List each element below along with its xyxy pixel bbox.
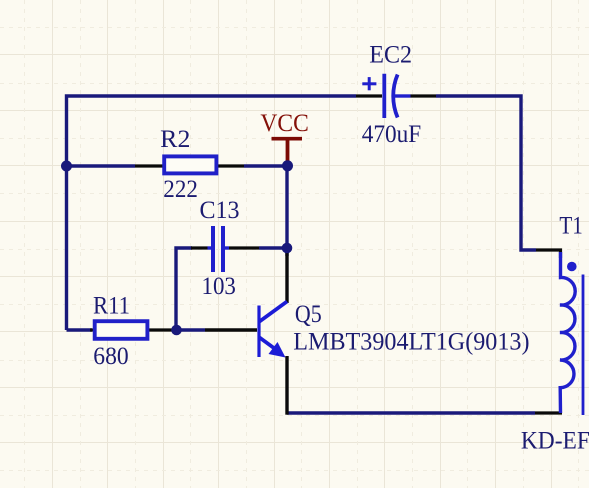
wire: R11 row right to base node	[172, 328, 205, 331]
junction node R11 / base row	[171, 325, 182, 336]
svg-text:R2: R2	[160, 124, 190, 153]
resistor R2 body	[164, 156, 216, 173]
transformer T1 core line	[582, 275, 585, 416]
pin: T1 top pin elbow (black)	[536, 250, 561, 258]
svg-text:VCC: VCC	[260, 108, 308, 137]
transformer T1 winding	[560, 252, 575, 413]
svg-text:KD-EF: KD-EF	[521, 426, 589, 455]
capacitor C13 plates	[213, 226, 223, 272]
pin: C13 left pin	[191, 246, 208, 249]
svg-text:222: 222	[163, 174, 198, 203]
svg-text:C13: C13	[200, 195, 240, 224]
junction node at left R2 row	[61, 161, 72, 172]
wire: top right + right vertical down to T1	[436, 96, 536, 250]
capacitor C13 lead stubs	[208, 246, 214, 249]
transistor Q5 symbol	[259, 302, 287, 358]
svg-text:T1: T1	[559, 211, 582, 240]
wire: left vertical + top horizontal run	[67, 96, 357, 330]
transistor Q5 emitter arrow	[269, 342, 286, 358]
wire: C13 left loop down to base row	[176, 248, 192, 330]
wire: R11 row left	[67, 328, 93, 331]
wire: bottom emitter run	[287, 411, 535, 414]
junction node VCC / R2 right	[282, 160, 293, 171]
pin: T1 bottom pin (black)	[535, 411, 562, 414]
wire: R2 row left segment	[67, 164, 136, 167]
svg-text:EC2: EC2	[369, 39, 412, 68]
pin: Q5 collector pin	[285, 253, 288, 303]
transformer T1 polarity dot	[567, 262, 577, 272]
svg-text:470uF: 470uF	[362, 119, 422, 148]
wire: C13 right to node	[259, 246, 287, 249]
pin: R2 left pin	[135, 164, 163, 167]
pin: C13 right pin	[229, 246, 259, 249]
pin: R11 left pin	[90, 328, 94, 331]
pin: Q5 emitter pin	[285, 356, 288, 415]
pin: R11 right pin	[148, 328, 172, 331]
svg-text:Q5: Q5	[295, 299, 322, 328]
pin: R2 right pin	[217, 164, 244, 167]
resistor R11 body	[95, 321, 148, 339]
svg-text:680: 680	[93, 341, 128, 370]
svg-text:LMBT3904LT1G(9013): LMBT3904LT1G(9013)	[293, 327, 529, 356]
pin: Q5 base pin	[205, 328, 257, 331]
junction node C13 right	[282, 243, 293, 254]
wire: vertical VCC node to collector	[285, 163, 288, 256]
power port VCC	[272, 139, 303, 164]
svg-text:R11: R11	[93, 291, 130, 320]
capacitor EC2 (electrolytic)	[362, 74, 410, 118]
pin: EC2 left pin (black)	[356, 94, 382, 97]
svg-text:103: 103	[202, 271, 236, 300]
pin: EC2 right pin (black)	[411, 94, 437, 97]
wire: R2 row right segment to VCC node	[244, 164, 287, 167]
